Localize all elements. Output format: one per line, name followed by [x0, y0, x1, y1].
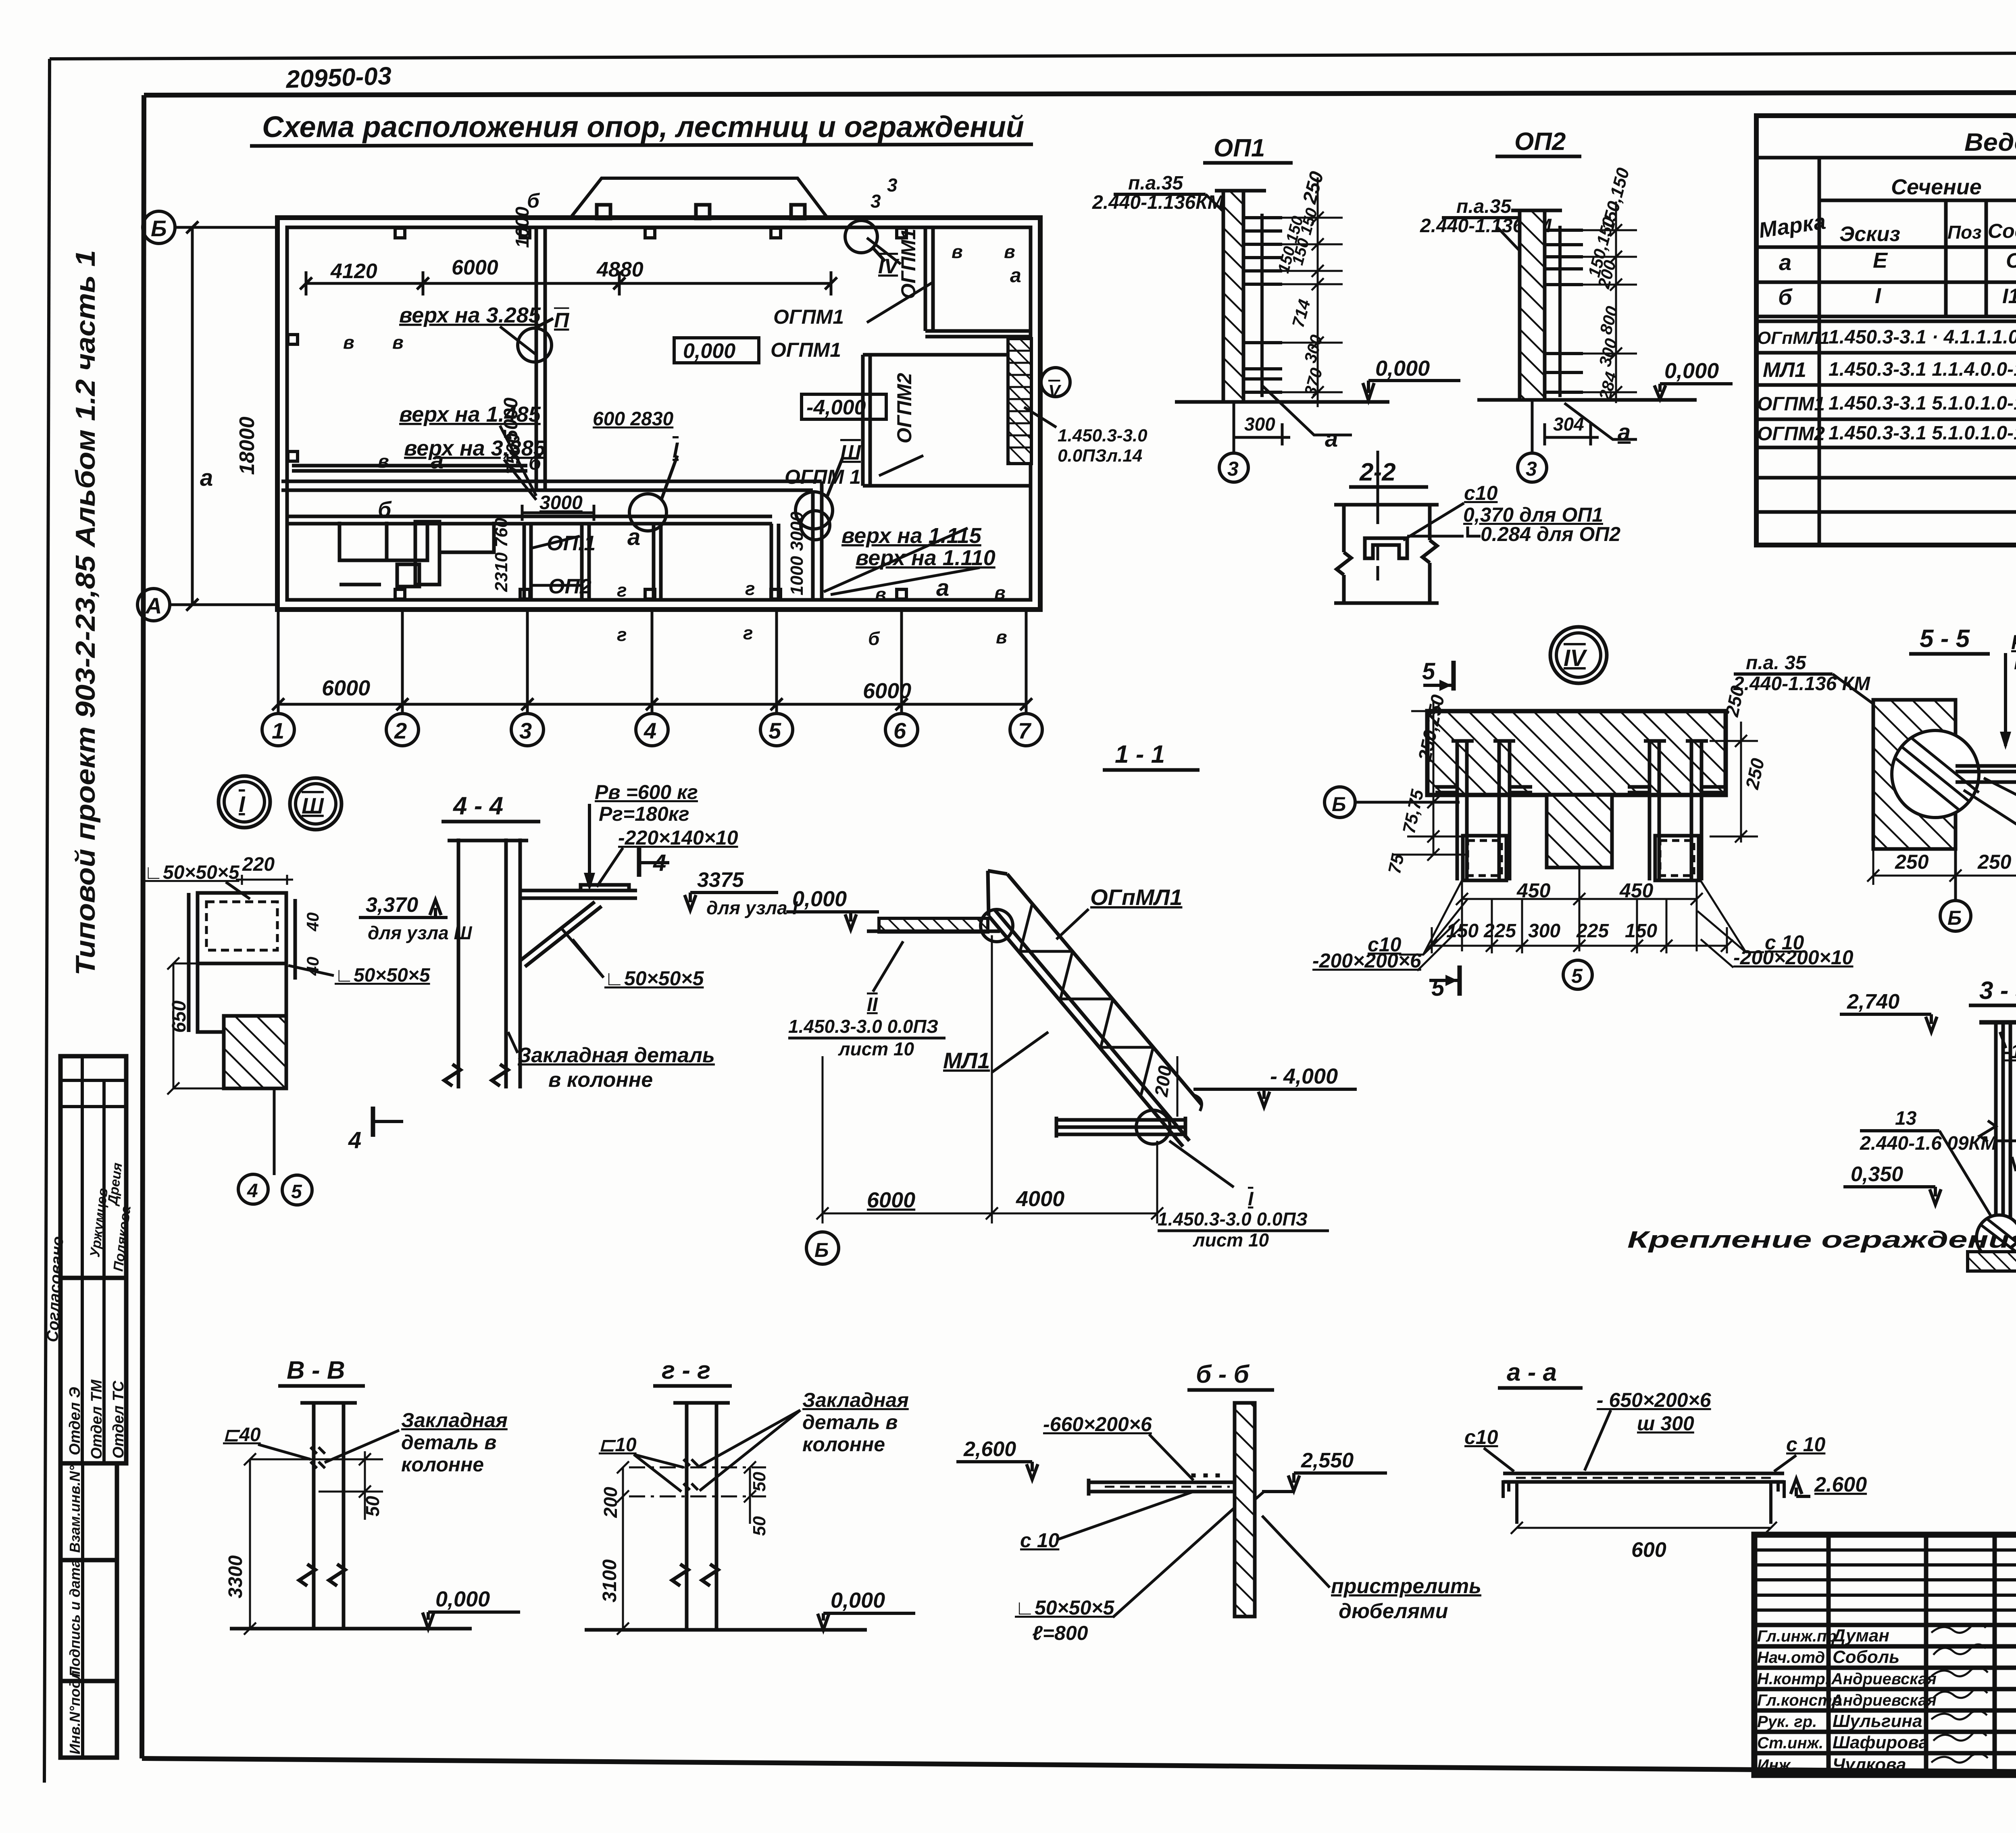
600 dim: [1511, 1522, 1777, 1534]
elevation boxes: [674, 338, 886, 419]
svg-text:І: І: [239, 791, 246, 817]
svg-text:ОГПМ 1: ОГПМ 1: [785, 466, 861, 488]
svg-text:ІV: ІV: [878, 255, 900, 278]
left dims: [1393, 701, 1472, 861]
svg-text:а: а: [1618, 419, 1631, 445]
svg-text:7500: 7500: [502, 433, 523, 474]
extension lines and dim line: [1246, 177, 1343, 407]
svg-text:І: І: [1248, 1188, 1254, 1210]
right dims: [1710, 722, 1758, 843]
svg-text:4000: 4000: [1016, 1187, 1064, 1211]
svg-text:Отдел Э: Отдел Э: [67, 1387, 83, 1455]
svg-text:С10: С10: [2006, 249, 2016, 273]
svg-text:П: П: [554, 309, 570, 332]
svg-text:150: 150: [1625, 920, 1657, 942]
svg-text:1.450.3-3.1 5.1.0.1.0-10: 1.450.3-3.1 5.1.0.1.0-10: [1829, 393, 2016, 414]
svg-text:0,000: 0,000: [1375, 356, 1430, 381]
svg-text:Гл.констр: Гл.констр: [1757, 1692, 1842, 1709]
svg-text:Нач.отд: Нач.отд: [1757, 1649, 1825, 1667]
svg-text:6000: 6000: [452, 256, 498, 279]
svg-text:5: 5: [1571, 965, 1583, 987]
svg-text:∟50×50×5: ∟50×50×5: [144, 862, 240, 883]
svg-text:ОП2: ОП2: [1514, 128, 1566, 156]
bottom landing: [1056, 1117, 1185, 1138]
svg-text:ОГПМ2: ОГПМ2: [893, 373, 916, 443]
svg-text:ш 300: ш 300: [1637, 1412, 1694, 1435]
svg-text:1.450.3-3.1 · 4.1.1.1.0-11: 1.450.3-3.1 · 4.1.1.1.0-11: [1829, 327, 2016, 348]
base: [1976, 1215, 2016, 1260]
svg-text:Рук. гр.: Рук. гр.: [1757, 1713, 1817, 1731]
svg-text:3: 3: [1526, 458, 1537, 480]
platform edge wall lower: [287, 515, 772, 518]
svg-text:3300: 3300: [225, 1555, 246, 1598]
bubble 5 bottom: [1563, 960, 1592, 989]
svg-text:650: 650: [169, 1001, 190, 1033]
svg-text:в: в: [875, 584, 886, 605]
svg-text:І: І: [673, 438, 679, 462]
svg-text:деталь в: деталь в: [802, 1411, 898, 1434]
OP1 column hatched bar: [1223, 191, 1243, 402]
svg-text:220: 220: [242, 854, 275, 875]
svg-text:Б: Б: [1332, 793, 1346, 816]
svg-text:250: 250: [1895, 851, 1929, 873]
dimension lines: [180, 221, 1032, 714]
bottom dims: [816, 935, 1163, 1223]
svg-text:5: 5: [768, 718, 781, 743]
svg-text:2310 760: 2310 760: [492, 518, 511, 592]
svg-text:в: в: [378, 451, 389, 472]
bottom dims: [1426, 868, 1733, 953]
svg-text:300: 300: [1528, 920, 1560, 942]
svg-text:ОГПМ2: ОГПМ2: [1757, 423, 1825, 445]
svg-text:г: г: [743, 622, 753, 643]
svg-text:Отдел ТС: Отдел ТС: [110, 1381, 127, 1458]
svg-text:3,370: 3,370: [366, 893, 418, 917]
svg-text:Андриевская: Андриевская: [1831, 1670, 1937, 1688]
node IV bubble: [1550, 627, 1607, 683]
axis B: [806, 1232, 839, 1264]
svg-text:Поз: Поз: [1947, 222, 1982, 243]
svg-text:б: б: [529, 451, 542, 474]
svg-text:ОП2: ОП2: [548, 575, 591, 598]
svg-text:-220×140×10: -220×140×10: [618, 826, 738, 849]
svg-text:в: в: [994, 582, 1006, 603]
svg-text:3: 3: [887, 175, 898, 196]
svg-text:Б: Б: [814, 1239, 829, 1261]
node circles on plan: [518, 221, 1070, 540]
svg-text:6000: 6000: [867, 1188, 915, 1212]
table texts: [1757, 129, 2016, 483]
svg-text:Думан: Думан: [1831, 1626, 1889, 1646]
svg-text:а: а: [431, 447, 444, 474]
svg-text:верх на 1.110: верх на 1.110: [856, 546, 996, 570]
svg-text:б: б: [868, 628, 880, 649]
svg-text:4: 4: [644, 718, 656, 743]
svg-text:Сечение: Сечение: [1891, 175, 1982, 199]
svg-text:0,000: 0,000: [683, 339, 735, 363]
svg-text:ℓ=800: ℓ=800: [1032, 1622, 1088, 1644]
svg-text:Взам.инв.N°: Взам.инв.N°: [67, 1465, 83, 1553]
svg-text:4: 4: [247, 1180, 258, 1202]
svg-text:2.600: 2.600: [1814, 1473, 1867, 1496]
svg-text:6: 6: [893, 718, 906, 743]
svg-text:50: 50: [750, 1516, 769, 1536]
svg-text:Ст.инж.: Ст.инж.: [1757, 1734, 1823, 1752]
svg-text:-4,000: -4,000: [806, 396, 866, 419]
pit railing left: [292, 464, 527, 468]
svg-text:б: б: [378, 497, 392, 522]
bracket drawing: [189, 893, 295, 1032]
channel C10 section: [1365, 538, 1407, 558]
svg-text:г: г: [745, 578, 755, 599]
dims: [244, 1451, 383, 1635]
center pier: [1547, 795, 1612, 868]
room partition walls: [580, 524, 584, 600]
svg-text:- 4,000: - 4,000: [1270, 1064, 1338, 1088]
svg-text:4120: 4120: [330, 260, 377, 283]
svg-text:Эскиз: Эскиз: [1839, 223, 1900, 246]
wall outline with breaks: [1334, 505, 1439, 603]
svg-text:в: в: [343, 332, 354, 353]
main interior vertical wall: [535, 227, 538, 490]
svg-text:1: 1: [272, 718, 284, 743]
roof trapezoid above top wall: [571, 178, 827, 218]
svg-text:ОГпМЛ1: ОГпМЛ1: [1757, 328, 1829, 348]
svg-text:в: в: [392, 332, 404, 353]
horizontal lines: [1756, 158, 2016, 512]
svg-text:50: 50: [750, 1472, 769, 1492]
svg-text:20950-03: 20950-03: [285, 62, 392, 94]
svg-text:-150×100×10: -150×100×10: [2004, 1040, 2016, 1063]
svg-text:Инж.: Инж.: [1757, 1756, 1795, 1774]
svg-text:А: А: [145, 593, 162, 618]
top landing hatched: [879, 918, 988, 932]
svg-text:600: 600: [1631, 1538, 1666, 1562]
svg-text:Закладная: Закладная: [802, 1389, 909, 1411]
svg-text:Крепление ограждения приям: Крепление ограждения приямка см. 1.450.3…: [1627, 1227, 2016, 1253]
svg-text:2,740: 2,740: [1847, 990, 1899, 1013]
svg-text:дюбелями: дюбелями: [1339, 1600, 1448, 1623]
svg-text:с10: с10: [1464, 482, 1498, 504]
svg-text:3: 3: [519, 718, 532, 743]
platform: [1089, 1479, 1235, 1496]
svg-text:200: 200: [600, 1487, 621, 1518]
svg-text:200: 200: [1150, 1064, 1175, 1099]
svg-text:а: а: [936, 575, 949, 601]
stair hatch strip on right wall: [1008, 339, 1031, 464]
svg-text:п.а.35: п.а.35: [1456, 196, 1512, 217]
element list table: [1756, 116, 2016, 545]
hatched slab: [1427, 711, 1726, 795]
svg-text:в колонне: в колонне: [548, 1068, 653, 1092]
svg-text:Н.контр.: Н.контр.: [1757, 1670, 1830, 1688]
svg-text:∟50×50×5: ∟50×50×5: [335, 965, 431, 986]
svg-text:40: 40: [303, 912, 322, 932]
svg-text:І: І: [1875, 284, 1881, 308]
svg-text:1.450.3-3.1 5.1.0.1.0-13: 1.450.3-3.1 5.1.0.1.0-13: [1829, 422, 2016, 444]
svg-text:5 - 5: 5 - 5: [1920, 625, 1970, 653]
svg-text:ОГпМЛ1: ОГпМЛ1: [1090, 884, 1182, 910]
svg-text:1.450.3-3.0 0.0ПЗ: 1.450.3-3.0 0.0ПЗ: [788, 1016, 938, 1037]
svg-text:В - В: В - В: [287, 1357, 345, 1384]
OP2 column hatched bar: [1520, 210, 1545, 400]
svg-text:в: в: [1004, 241, 1015, 262]
bracket right: [1956, 766, 2016, 782]
svg-text:5: 5: [291, 1181, 302, 1203]
svg-text:V: V: [1048, 381, 1062, 401]
svg-text:Ш: Ш: [302, 793, 324, 818]
svg-text:7: 7: [1018, 718, 1032, 743]
OP column axis line: [523, 524, 526, 600]
svg-text:лист 10: лист 10: [838, 1038, 914, 1059]
svg-text:ОП.1: ОП.1: [547, 532, 596, 555]
svg-text:2,600: 2,600: [963, 1438, 1016, 1461]
-4.000 room: [861, 355, 865, 486]
svg-text:2: 2: [394, 718, 407, 743]
svg-text:лист 10: лист 10: [1193, 1230, 1269, 1250]
svg-text:в: в: [952, 241, 963, 262]
svg-text:ІV: ІV: [1564, 645, 1587, 671]
svg-text:∟50×50×5: ∟50×50×5: [1015, 1596, 1115, 1619]
svg-text:225: 225: [1576, 920, 1609, 942]
corridor wall horizontal: [281, 480, 822, 483]
svg-text:4: 4: [348, 1127, 361, 1153]
svg-text:0,350: 0,350: [1851, 1163, 1903, 1186]
svg-text:Подпись и дата: Подпись и дата: [67, 1559, 83, 1677]
svg-text:1.450.3-3.1 1.1.4.0.0-19: 1.450.3-3.1 1.1.4.0.0-19: [1829, 359, 2016, 380]
platform: [1503, 1473, 1784, 1482]
svg-text:Е: Е: [1873, 248, 1888, 273]
svg-text:1000: 1000: [512, 206, 533, 248]
svg-text:13: 13: [1895, 1108, 1917, 1129]
bottom bubbles: [273, 1088, 276, 1175]
svg-text:2,550: 2,550: [1301, 1449, 1354, 1472]
svg-text:Ш: Ш: [840, 441, 861, 464]
svg-text:с10: с10: [1464, 1426, 1498, 1448]
svg-text:верх на 3,385: верх на 3,385: [404, 436, 546, 460]
svg-text:1.450.3-3.0: 1.450.3-3.0: [1058, 426, 1148, 445]
column marks on walls: [288, 228, 906, 599]
grid bubbles: [137, 211, 1042, 746]
svg-text:колонне: колонне: [401, 1453, 484, 1476]
svg-text:2.440-1.136 КМ: 2.440-1.136 КМ: [1733, 673, 1870, 695]
svg-text:Соболь: Соболь: [1833, 1647, 1899, 1667]
svg-text:ІІ: ІІ: [867, 994, 878, 1015]
svg-text:б: б: [1778, 284, 1793, 310]
axis B: [1954, 849, 1957, 901]
bracket platform: [520, 885, 637, 967]
column lines: [444, 838, 528, 1088]
railing cross bars: [1020, 904, 1202, 1111]
svg-text:250: 250: [1977, 851, 2012, 873]
vertical lines: [1819, 158, 2016, 545]
main title: [250, 110, 1033, 146]
svg-text:колонне: колонне: [802, 1433, 885, 1456]
svg-text:600 2830: 600 2830: [593, 408, 674, 430]
plan leader lines: [500, 238, 1056, 595]
svg-text:300: 300: [1244, 414, 1275, 435]
svg-text:ОГПМ1: ОГПМ1: [771, 339, 841, 361]
svg-text:-200×200×10: -200×200×10: [1733, 946, 1854, 969]
bottom long dim line: [278, 703, 1026, 706]
svg-text:для узла І: для узла І: [706, 897, 798, 918]
svg-text:Инв.N°подл: Инв.N°подл: [67, 1671, 83, 1754]
svg-text:Гл.инж.пр: Гл.инж.пр: [1757, 1627, 1837, 1645]
svg-text:Рв =600 кг: Рв =600 кг: [595, 781, 698, 803]
column: [299, 1403, 357, 1629]
svg-text:МЛ1: МЛ1: [943, 1048, 990, 1073]
svg-text:1.450.3-3.0 0.0ПЗ: 1.450.3-3.0 0.0ПЗ: [1158, 1209, 1308, 1230]
svg-text:0,000: 0,000: [1664, 359, 1719, 383]
svg-text:МЛ1: МЛ1: [1763, 358, 1806, 382]
svg-text:Рг= 120 кг: Рг= 120 кг: [2014, 651, 2016, 674]
svg-text:Шафирова: Шафирова: [1833, 1733, 1929, 1752]
svg-text:3100: 3100: [599, 1559, 621, 1602]
svg-text:Б: Б: [1947, 907, 1962, 929]
left margin stamp column: [60, 1056, 126, 1758]
svg-text:Типовой проект 903-2-23,85: Типовой проект 903-2-23,85 Альбом 1.2 ча…: [70, 250, 101, 976]
svg-text:ОГПМ1: ОГПМ1: [773, 306, 844, 328]
svg-text:п.а. 35: п.а. 35: [1746, 652, 1807, 674]
svg-text:г: г: [617, 624, 627, 645]
left bracket assembly: [1435, 741, 1532, 880]
svg-text:а: а: [1779, 250, 1791, 275]
svg-text:0.0ПЗл.14: 0.0ПЗл.14: [1058, 446, 1142, 466]
svg-text:верх на 1.115: верх на 1.115: [841, 524, 982, 548]
svg-text:-660×200×6: -660×200×6: [1043, 1413, 1152, 1436]
svg-text:3 - 3: 3 - 3: [1979, 977, 2016, 1005]
svg-text:Закладная: Закладная: [401, 1409, 508, 1431]
top right platform railing: [924, 227, 927, 331]
leader a: [1262, 385, 1352, 435]
svg-text:6000: 6000: [322, 676, 370, 700]
svg-text:0,000: 0,000: [831, 1588, 885, 1612]
end clips: [1503, 1482, 1784, 1524]
axis bubble 3: [1233, 402, 1235, 454]
bottom-left room cluster: [339, 522, 427, 560]
hatched wall 5-5: [1873, 700, 1956, 849]
svg-text:Рв= 400 кг: Рв= 400 кг: [2011, 631, 2016, 653]
top dim line: [306, 282, 831, 285]
plan labels: [200, 175, 1021, 703]
main title block: [1754, 1535, 2016, 1775]
svg-text:а: а: [200, 465, 213, 491]
right bracket assembly: [1628, 741, 1724, 880]
svg-text:пристрелить: пристрелить: [1331, 1575, 1481, 1598]
svg-text:Чулкова: Чулкова: [1833, 1755, 1906, 1775]
svg-text:Андриевская: Андриевская: [1831, 1692, 1937, 1709]
embedded marks: [310, 1447, 325, 1468]
svg-text:3: 3: [1227, 458, 1239, 480]
wall hatched: [1235, 1403, 1255, 1617]
stair stringers: [988, 871, 1202, 1146]
svg-text:Рг=180кг: Рг=180кг: [599, 803, 689, 825]
svg-text:-200×200×6: -200×200×6: [1312, 949, 1422, 972]
svg-text:3000: 3000: [539, 492, 583, 514]
signature part: [1754, 1550, 2016, 1610]
svg-text:с 10: с 10: [1020, 1529, 1060, 1552]
svg-text:І10: І10: [2002, 285, 2016, 308]
svg-text:0,000: 0,000: [435, 1587, 490, 1611]
svg-text:Закладная деталь: Закладная деталь: [518, 1044, 715, 1067]
svg-text:4 - 4: 4 - 4: [452, 792, 503, 820]
svg-text:деталь в: деталь в: [401, 1431, 496, 1454]
svg-text:225: 225: [1483, 920, 1516, 942]
svg-text:ОГПМ1: ОГПМ1: [1757, 393, 1825, 415]
svg-text:- 650×200×6: - 650×200×6: [1597, 1389, 1712, 1411]
svg-text:0.284 для ОП2: 0.284 для ОП2: [1481, 523, 1620, 545]
hatched column below: [224, 1016, 286, 1088]
svg-text:450: 450: [1619, 879, 1654, 902]
svg-text:450: 450: [1516, 879, 1551, 902]
svg-text:для узла Ш: для узла Ш: [368, 922, 473, 943]
svg-text:18000: 18000: [235, 416, 259, 475]
svg-text:а: а: [1325, 426, 1338, 452]
svg-text:50: 50: [362, 1496, 383, 1517]
node I bubble: [219, 776, 270, 828]
signature scribbles: [1931, 1624, 1988, 1762]
svg-text:⊏10: ⊏10: [599, 1434, 637, 1456]
svg-text:3: 3: [871, 191, 881, 212]
svg-text:304: 304: [1553, 414, 1584, 435]
svg-text:ОП1: ОП1: [1214, 134, 1265, 162]
svg-text:Схема расположения опор, л: Схема расположения опор, лестниц и ограж…: [262, 110, 1024, 144]
svg-text:Отдел ТМ: Отдел ТМ: [88, 1379, 105, 1459]
signature rows text: [1757, 1624, 1988, 1775]
svg-text:ОГПМ1: ОГПМ1: [897, 229, 920, 299]
svg-text:3375: 3375: [697, 868, 744, 892]
ground line: [1175, 400, 1389, 404]
svg-text:∟50×50×5: ∟50×50×5: [604, 967, 704, 990]
svg-text:⊏40: ⊏40: [223, 1424, 261, 1446]
svg-text:Состав: Состав: [1988, 220, 2016, 242]
svg-text:6000: 6000: [863, 679, 911, 703]
svg-text:5: 5: [1422, 658, 1435, 685]
svg-text:5: 5: [1431, 975, 1445, 1001]
svg-text:в: в: [996, 626, 1007, 647]
column I-beam: [1979, 1020, 2016, 1025]
ladder rungs: [1243, 214, 1282, 397]
svg-text:п.а.35: п.а.35: [1128, 173, 1183, 194]
outer wall double line: [277, 218, 1040, 610]
svg-text:с 10: с 10: [1786, 1433, 1826, 1456]
svg-text:Ведомость элементов: Ведомость элементов: [1964, 129, 2016, 156]
svg-text:г - г: г - г: [662, 1357, 710, 1384]
svg-text:Шульгина: Шульгина: [1833, 1711, 1922, 1731]
svg-text:а - а: а - а: [1507, 1359, 1557, 1386]
svg-text:2.440-1.6 09КМ: 2.440-1.6 09КМ: [1860, 1133, 1997, 1154]
svg-text:2.440-1.136КМ: 2.440-1.136КМ: [1092, 192, 1224, 213]
svg-text:а: а: [1010, 264, 1021, 287]
svg-text:верх на 3.285: верх на 3.285: [399, 303, 541, 327]
axis B: [1325, 787, 1355, 818]
svg-text:г: г: [617, 580, 627, 601]
svg-text:Б: Б: [151, 216, 167, 241]
3000 dim under corridor: [522, 512, 594, 514]
svg-text:1 - 1: 1 - 1: [1115, 741, 1165, 768]
bottom dims: [1867, 782, 2016, 885]
left 18000 dim: [191, 227, 194, 605]
svg-text:0,000: 0,000: [792, 887, 847, 911]
svg-text:б - б: б - б: [1196, 1361, 1250, 1388]
